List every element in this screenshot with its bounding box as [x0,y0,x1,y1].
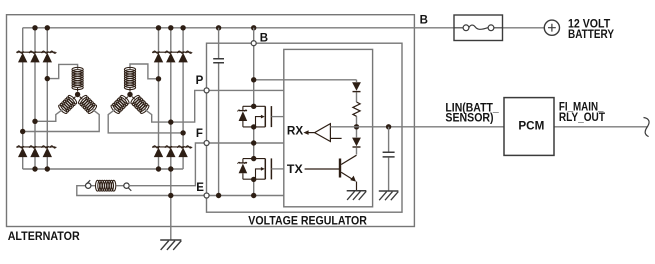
diode top-right 1 [154,53,163,63]
wire sense branch to divider chain [254,79,357,81]
wire phase2 tap left Y [35,110,63,122]
svg-text:ALTERNATOR: ALTERNATOR [8,231,81,243]
junction top bus 5 [180,25,185,30]
junction bottom bus 1 [32,166,37,171]
junction top bus 3 [156,25,161,30]
wire negative bottom bus [23,168,183,170]
wire bypass cap drop [388,127,390,191]
avalanche cathode bar, top-right rectifier [152,51,192,53]
junction top bus 7 [251,25,256,30]
outer alternator enclosure box [7,15,415,227]
terminal E circle [204,193,209,198]
junction bottom bus 4 [168,166,173,171]
svg-text:RLY_OUT: RLY_OUT [559,112,605,124]
wire emitter to ground [356,182,358,191]
stator coil right-slant, left Y [76,93,98,115]
wire B+ top bus from rectifier to fuse [23,27,454,29]
wire LIN(BATT_SENSOR) line [330,126,647,128]
junction LIN bypass cap [386,124,391,129]
wire phase1 tap right Y [130,64,159,79]
wire F terminal to center rail and comparator box [209,142,284,144]
node Y-center right stator [127,92,132,97]
wire phase column 1 left [22,28,24,169]
diode bottom-right 2 [166,148,175,158]
power MOSFET Q1 with body diode [238,106,284,127]
wire left brush to E wire [77,186,284,196]
wire column 2 right to chassis ground [170,157,172,240]
diode bottom-left 1 [18,148,27,158]
junction MOSFET1 source [251,124,256,129]
comparator U1 triangle [315,124,331,142]
stator coil top, left Y [72,67,83,91]
wire TX base [305,168,339,170]
wire brush gaps field coil [91,185,124,187]
wire filter capacitor rail [218,28,220,196]
junction phase1 left [45,76,50,81]
fuse element [463,25,469,31]
wire chain vertical segments [356,80,358,155]
junction phase3 left [20,129,25,134]
wire phase column 3 left [46,28,48,169]
RX output arrow [307,132,315,134]
junction F rail [251,140,256,145]
brush left (slip ring) [86,183,91,188]
diode top-left 3 [43,53,52,63]
wire B terminal rail [253,28,255,196]
junction bottom bus 3 [156,166,161,171]
terminal B circle [251,41,256,46]
wire phase tap right Y to column 3 [108,110,183,133]
junction MOSFET2 source [251,177,256,182]
svg-text:F: F [196,128,203,140]
junction top bus 1 [32,25,37,30]
junction top bus 2 [45,25,50,30]
diode bottom-right 3 [178,148,187,158]
svg-text:E: E [196,182,204,194]
node RX/LIN divider tap [354,124,359,129]
ground bypass capacitor [379,191,399,200]
svg-text:RX: RX [287,126,304,138]
junction bottom bus 2 [45,166,50,171]
junction phase3 right [180,130,185,135]
diode top-right 3 [178,53,187,63]
junction top bus 4 [168,25,173,30]
rotor field coil [96,180,116,191]
wire phase column 2 right [170,28,172,147]
diode D8 chain lower [352,138,361,147]
wire phase column 2 left [34,28,36,169]
filter capacitor C1 plates [213,59,224,63]
junction phase2 left [32,119,37,124]
resistor R1 zigzag [353,102,360,116]
svg-text:B: B [260,32,268,44]
wire phase column 3 right [182,28,184,169]
svg-text:SENSOR): SENSOR) [445,113,493,125]
battery 12V symbol [544,20,559,35]
avalanche cathode bar, bottom-right rectifier [152,146,192,148]
junction phase1 right [156,76,161,81]
junction capacitor rail top... E wire [216,193,221,198]
ground transistor emitter [347,191,367,200]
svg-text:TX: TX [287,164,303,176]
stator coil top, right Y [124,67,135,91]
node Y-center left stator [75,92,80,97]
ground chassis below alternator [160,240,181,250]
diode bottom-right 1 [154,148,163,158]
junction MOSFET2 drain [251,156,256,161]
voltage regulator box [207,43,403,212]
bypass capacitor C2 plates [383,152,395,157]
stator coil left-slant, right Y [110,93,132,115]
junction sense branch [251,77,256,82]
diode bottom-left 2 [30,148,39,158]
wire comparator lower input stub [330,137,341,139]
wire phase1 tap left Y [47,64,77,78]
diode bottom-left 3 [43,148,52,158]
fuse box [454,15,503,41]
junction E rail bottom [251,193,256,198]
wire break squiggle at FI_MAIN output [644,118,650,137]
PCM box [504,98,554,156]
diode top-left 1 [18,53,27,63]
junction top bus 6 [216,25,221,30]
comparator inner box [284,49,373,206]
stator coil left-slant, left Y [57,93,79,115]
svg-text:BATTERY: BATTERY [568,29,614,41]
junction MOSFET1 drain [251,104,256,109]
stator coil right-slant, right Y [128,93,150,115]
wire battery link from fuse to battery [503,27,545,29]
avalanche cathode bar, top-left rectifier [16,51,56,53]
wire right brush to F terminal [129,143,204,186]
svg-text:PCM: PCM [518,121,544,133]
power MOSFET Q2 with body diode [238,158,284,179]
avalanche cathode bar, bottom-left rectifier [16,146,56,148]
wire phase tap right Y to P terminal [145,90,204,122]
junction phase2 right [168,119,173,124]
transistor Q3 NPN [339,159,341,178]
junction ground riser on E wire [168,193,173,198]
wire fuse internal stubs [454,27,503,29]
wire phase column 1 right [158,28,160,169]
diode top-left 2 [30,53,39,63]
diode top-right 2 [166,53,175,63]
svg-text:P: P [196,75,204,87]
terminal F circle [204,141,209,146]
terminal P circle [204,88,209,93]
diode D7 chain upper [352,82,361,91]
svg-text:B: B [420,15,428,27]
wire P terminal into comparator box [209,89,284,91]
brush right (slip ring) [124,183,129,188]
wire phase3 tap left Y [23,110,100,132]
svg-text:VOLTAGE REGULATOR: VOLTAGE REGULATOR [248,216,367,228]
